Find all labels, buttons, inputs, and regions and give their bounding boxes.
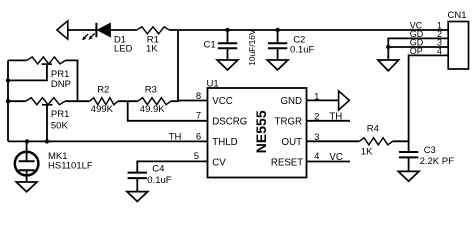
resistor R1 — [136, 27, 169, 34]
potentiometer PR1 (DNP) — [8, 57, 66, 81]
svg-text:TH: TH — [329, 112, 342, 123]
wire pin3 OUT to R4 — [307, 140, 360, 142]
node junction MK1 — [25, 139, 29, 143]
svg-text:LED: LED — [114, 44, 133, 55]
wire pin4 VC stub — [307, 161, 351, 163]
svg-text:OP: OP — [410, 46, 423, 56]
flag GND output — [339, 91, 350, 110]
op-amp U1 NE555 body — [208, 88, 307, 178]
node junction C1 — [225, 28, 229, 32]
svg-text:499K: 499K — [91, 104, 114, 115]
flag VC input (left) — [57, 21, 68, 39]
ground C3 — [398, 171, 419, 181]
svg-text:R3: R3 — [145, 85, 157, 96]
svg-text:4: 4 — [314, 151, 319, 162]
svg-text:R4: R4 — [367, 124, 379, 135]
wire to PR1 bottom — [8, 100, 26, 102]
wire pin1 GND stub — [307, 99, 339, 101]
svg-text:HS1101LF: HS1101LF — [48, 160, 93, 171]
wire TH (thld) — [8, 140, 208, 142]
svg-text:8: 8 — [196, 91, 201, 102]
ground CN1 — [378, 60, 399, 71]
capacitor C1 — [218, 30, 237, 60]
resistor R3 — [138, 98, 171, 105]
svg-text:TRGR: TRGR — [275, 117, 302, 128]
wire R2 to R3 — [118, 100, 138, 102]
svg-text:GND: GND — [280, 96, 302, 107]
svg-text:DSCRG: DSCRG — [212, 117, 247, 128]
svg-text:RESET: RESET — [271, 157, 303, 168]
svg-text:R2: R2 — [97, 85, 109, 96]
wire PR1 bottom to R2 — [65, 100, 90, 102]
resistor R4 — [359, 138, 392, 145]
connector CN1 body — [448, 22, 468, 70]
svg-text:7: 7 — [196, 111, 201, 122]
wire CV to C4 — [137, 161, 207, 172]
node junction wiper 50K — [45, 139, 49, 143]
svg-text:0.1uF: 0.1uF — [290, 44, 314, 55]
wire VC rail (R1 to CN1 pin1) — [170, 29, 449, 31]
svg-text:TH: TH — [169, 131, 182, 142]
svg-text:0.1uF: 0.1uF — [147, 175, 171, 186]
svg-text:5: 5 — [194, 151, 199, 162]
led D1 — [82, 23, 111, 41]
node junction left rail R chain — [6, 99, 10, 103]
svg-text:50K: 50K — [51, 121, 69, 132]
svg-text:VCC: VCC — [212, 96, 232, 107]
wire CN1 pin3 GD — [388, 46, 448, 48]
ground C4 — [127, 192, 148, 202]
capacitor C4 — [128, 173, 147, 192]
ground C1 — [217, 60, 238, 70]
svg-text:1K: 1K — [361, 146, 373, 157]
svg-text:1K: 1K — [146, 44, 158, 55]
svg-text:49.9K: 49.9K — [140, 104, 165, 115]
ground MK1 — [16, 182, 37, 192]
potentiometer PR1 50K — [26, 98, 66, 142]
node junction GD — [386, 45, 390, 49]
svg-text:OUT: OUT — [282, 137, 303, 148]
ground C2 — [267, 60, 288, 70]
svg-text:DNP: DNP — [51, 79, 71, 90]
svg-text:4: 4 — [437, 46, 442, 56]
wire CN1 pin2 GD — [388, 38, 448, 47]
svg-text:PR1: PR1 — [51, 109, 69, 120]
wire flag to LED — [68, 29, 97, 31]
capacitor C2 — [268, 30, 287, 60]
wire R4 to C3 — [393, 140, 409, 142]
wire GD to ground — [387, 47, 389, 60]
svg-text:10uF/16V: 10uF/16V — [247, 29, 257, 66]
svg-text:CV: CV — [212, 157, 226, 168]
wire node to pin 7 — [128, 101, 208, 121]
svg-text:CN1: CN1 — [448, 10, 467, 21]
sensor MK1 HS1101LF — [15, 141, 39, 181]
svg-text:C3: C3 — [424, 145, 436, 156]
svg-text:C1: C1 — [204, 39, 216, 50]
wire CN1 pin4 OP to C3 — [409, 55, 449, 151]
node junction C2 — [275, 28, 279, 32]
wire VCC drop to pin 8 — [178, 30, 208, 101]
svg-text:C4: C4 — [152, 163, 164, 174]
svg-text:6: 6 — [196, 131, 201, 142]
svg-text:VC: VC — [329, 152, 342, 163]
wire PR1 top right side — [66, 60, 78, 101]
node junction wiper DNP — [6, 78, 10, 82]
svg-text:THLD: THLD — [212, 137, 237, 148]
wire LED to R1 — [111, 29, 137, 31]
svg-text:2.2K PF: 2.2K PF — [420, 156, 455, 167]
wire R3 to VCC node — [171, 100, 179, 102]
svg-text:U1: U1 — [207, 78, 219, 89]
wire to PR1 top — [8, 59, 27, 61]
svg-text:NE555: NE555 — [253, 110, 269, 153]
wire pin2 TH stub — [307, 120, 351, 122]
capacitor C3 — [399, 152, 418, 171]
wire left rail — [7, 60, 9, 141]
resistor R2 — [90, 98, 118, 105]
